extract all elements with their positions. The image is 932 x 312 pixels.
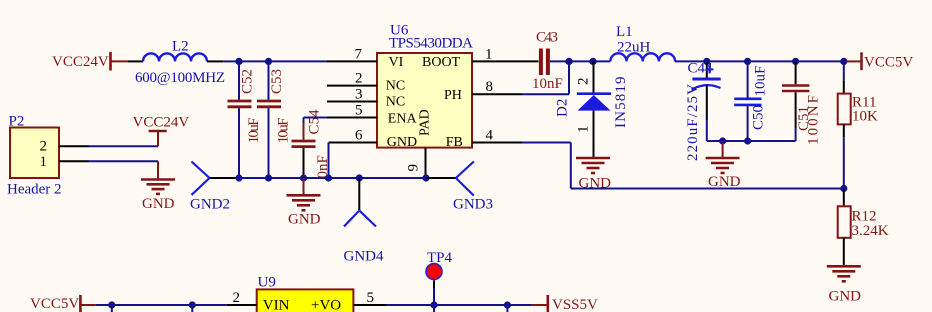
svg-text:10uF: 10uF	[753, 66, 769, 97]
ground bus wire GND2 segment	[210, 177, 240, 179]
capacitor C51	[782, 61, 822, 145]
diode D2 IN5819	[555, 61, 630, 157]
svg-text:5: 5	[355, 103, 363, 119]
ground symbol at P2	[141, 161, 175, 212]
pin 7 of U6	[327, 47, 377, 63]
capacitor C54	[292, 109, 332, 179]
power port VSS5V	[531, 295, 598, 312]
svg-text:6: 6	[355, 128, 363, 144]
wire VCC5V to U9	[96, 304, 227, 306]
power port VCC5V (bottom left)	[30, 295, 96, 312]
junction pin9	[422, 174, 429, 181]
svg-text:7: 7	[355, 47, 363, 63]
IC U6 TPS5430DDA	[377, 23, 473, 151]
svg-text:U9: U9	[258, 274, 276, 290]
svg-text:NC: NC	[386, 79, 405, 94]
svg-text:C53: C53	[269, 69, 285, 94]
regulator U9	[257, 274, 354, 312]
ground symbol at output rail	[706, 141, 741, 190]
pin 3 of U6	[327, 87, 377, 103]
power port VCC24V (above P2)	[133, 115, 190, 147]
svg-text:1: 1	[576, 126, 592, 134]
svg-text:4: 4	[486, 128, 494, 144]
wire riser up to switch node	[568, 61, 570, 94]
svg-text:NC: NC	[386, 95, 405, 110]
svg-text:VCC24V: VCC24V	[52, 54, 109, 70]
junction pin6 wire	[325, 174, 332, 181]
svg-text:GND: GND	[142, 196, 175, 212]
junction C44	[703, 58, 710, 65]
wire pin8 to riser	[522, 93, 569, 95]
ground symbol at R12	[827, 266, 861, 304]
pin 5 of U9	[353, 290, 386, 306]
svg-text:+VO: +VO	[311, 298, 341, 312]
junction bottom 3	[504, 301, 511, 312]
junction bottom 2	[189, 301, 196, 312]
capacitor C52	[228, 61, 263, 178]
wire L2 to node C52	[207, 60, 223, 62]
pin 2 of U9	[227, 290, 257, 306]
svg-text:2: 2	[355, 71, 363, 87]
svg-text:10uF: 10uF	[276, 118, 292, 144]
junction bottom 1	[108, 301, 115, 312]
pin 6 of U6	[329, 128, 378, 144]
wire P2 pin2 to VCC24V	[89, 145, 159, 147]
svg-text:C50: C50	[751, 105, 767, 130]
capacitor C53	[257, 61, 292, 178]
svg-text:1: 1	[40, 154, 48, 170]
junction PH riser	[565, 58, 572, 65]
power port GND4	[344, 178, 384, 265]
svg-text:C52: C52	[240, 69, 256, 94]
svg-text:VSS5V: VSS5V	[552, 297, 598, 312]
svg-text:10K: 10K	[852, 109, 878, 125]
power port GND2	[190, 162, 230, 213]
svg-text:GND4: GND4	[344, 249, 384, 265]
svg-text:600@100MHZ: 600@100MHZ	[135, 70, 225, 86]
junction rail C50	[744, 137, 751, 144]
junction D2	[589, 58, 596, 65]
wire L1 to VCC5V	[675, 60, 846, 62]
svg-text:PH: PH	[444, 88, 462, 103]
junction at C52 top	[235, 58, 242, 65]
power port GND3	[453, 162, 493, 213]
svg-text:VCC24V: VCC24V	[133, 115, 190, 131]
svg-text:VCC5V: VCC5V	[30, 296, 79, 312]
svg-text:VIN: VIN	[263, 298, 290, 312]
wire U9 to VSS5V	[386, 304, 531, 306]
svg-text:C43: C43	[536, 30, 558, 46]
svg-text:8: 8	[486, 79, 494, 95]
wire pin6 down to ground bus	[328, 143, 330, 179]
svg-text:GND: GND	[387, 135, 417, 150]
wire pin1 to C43	[522, 60, 539, 62]
junction C53 bottom	[265, 174, 272, 181]
svg-text:IN5819: IN5819	[613, 77, 629, 129]
junction GND4	[356, 174, 363, 181]
power port VCC5V (top right)	[846, 52, 913, 70]
svg-text:C54: C54	[307, 109, 323, 135]
svg-text:ENA: ENA	[388, 111, 418, 126]
svg-text:2: 2	[576, 78, 592, 86]
wire output cap ground rail	[707, 140, 796, 142]
junction divider	[840, 185, 847, 192]
junction rail gnd	[719, 137, 726, 144]
junction C50	[744, 58, 751, 65]
junction C54 bottom	[300, 174, 307, 181]
svg-text:2: 2	[40, 139, 48, 155]
wire FB riser down	[570, 143, 572, 189]
svg-text:VCC5V: VCC5V	[864, 55, 913, 71]
svg-text:22uH: 22uH	[617, 40, 651, 56]
ground symbol at D2	[576, 158, 611, 192]
capacitor C50	[734, 61, 768, 141]
wire FB horizontal to divider	[571, 188, 844, 190]
svg-text:GND: GND	[288, 212, 321, 228]
test point TP4	[426, 250, 453, 305]
svg-text:3: 3	[355, 87, 363, 103]
wire pin9 to GND3	[426, 177, 456, 179]
power port VCC24V (top left)	[52, 52, 128, 71]
pin 8 of U6	[472, 79, 522, 95]
pin 1 of U6	[472, 47, 522, 63]
pin 1 of P2	[59, 160, 89, 162]
svg-text:GND3: GND3	[453, 197, 493, 213]
svg-text:5: 5	[367, 290, 375, 306]
inductor L2	[135, 39, 225, 87]
junction C52 bottom	[235, 174, 242, 181]
inductor L1	[610, 24, 675, 61]
svg-text:PAD: PAD	[418, 109, 433, 136]
svg-text:10uF: 10uF	[246, 118, 262, 144]
wire pin5 to C54	[304, 117, 328, 119]
svg-text:2: 2	[233, 290, 241, 306]
pin 9 of U6	[406, 148, 426, 178]
wire node C52 to pin7	[239, 60, 327, 62]
svg-text:D2: D2	[555, 99, 571, 117]
junction TP4	[430, 301, 437, 312]
svg-text:9: 9	[406, 164, 422, 172]
svg-text:GND2: GND2	[190, 197, 230, 213]
wire P2 pin1 to GND	[89, 160, 159, 162]
junction C51	[792, 58, 799, 65]
svg-text:VI: VI	[389, 55, 404, 70]
svg-text:Header 2: Header 2	[7, 182, 62, 198]
wire FB from pin4	[522, 142, 571, 144]
capacitor C44 (electrolytic)	[685, 61, 721, 162]
svg-text:FB: FB	[446, 135, 463, 150]
pin 2 of U6	[327, 71, 377, 87]
pin 4 of U6	[472, 128, 522, 144]
wire VCC24V to L2	[128, 60, 143, 62]
connector P2	[7, 113, 62, 197]
svg-text:TPS5430DDA: TPS5430DDA	[389, 36, 473, 52]
svg-text:L2: L2	[172, 39, 189, 55]
junction R11	[840, 58, 847, 65]
svg-text:220uF/25V: 220uF/25V	[685, 84, 701, 161]
pin 5 of U6	[327, 103, 377, 119]
pin 2 of P2	[59, 145, 89, 147]
ground bus wire	[239, 177, 426, 179]
svg-text:1: 1	[485, 47, 493, 63]
junction at C53 top	[265, 58, 272, 65]
svg-text:10nF: 10nF	[532, 76, 563, 92]
resistor R11	[838, 61, 878, 188]
svg-text:GND: GND	[829, 289, 862, 305]
ground symbol under bus (C54)	[287, 178, 321, 228]
resistor R12	[838, 189, 889, 266]
svg-text:L1: L1	[616, 24, 633, 40]
capacitor C43	[532, 30, 563, 93]
svg-text:P2: P2	[9, 113, 25, 129]
svg-text:3.24K: 3.24K	[852, 223, 889, 239]
svg-text:BOOT: BOOT	[422, 55, 461, 70]
wire C43 to L1	[550, 60, 610, 62]
